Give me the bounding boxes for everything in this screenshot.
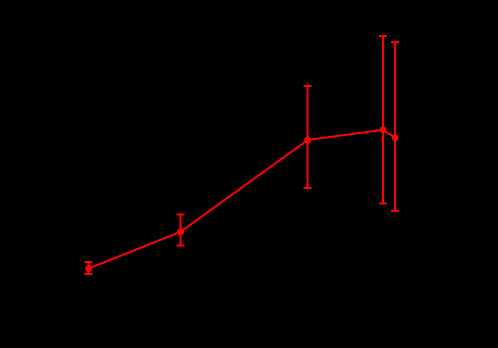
marker point 5 [392,134,399,141]
marker point 4 [380,126,387,133]
marker point 2 [177,228,184,235]
error bar point 5 [391,42,399,211]
error bar point 3 [304,86,312,188]
marker point 1 [85,265,92,272]
error bar point 4 [379,36,387,203]
error bar point 1 [85,262,93,274]
error bar point 2 [177,215,185,246]
marker point 3 [304,137,311,144]
data line [89,130,396,269]
